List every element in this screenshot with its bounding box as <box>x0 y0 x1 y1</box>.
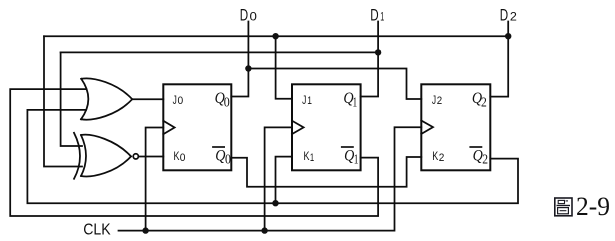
svg-text:J: J <box>302 93 306 107</box>
svg-text:0: 0 <box>180 152 186 164</box>
svg-text:1: 1 <box>307 95 312 107</box>
svg-text:2: 2 <box>437 95 442 107</box>
svg-text:J: J <box>432 93 436 107</box>
svg-text:K: K <box>304 149 310 163</box>
svg-text:1: 1 <box>353 96 358 111</box>
svg-text:2: 2 <box>481 96 487 111</box>
svg-text:J: J <box>173 93 177 107</box>
svg-text:2: 2 <box>510 10 517 24</box>
svg-text:0: 0 <box>224 96 230 111</box>
svg-text:2: 2 <box>439 152 445 164</box>
svg-text:1: 1 <box>310 152 314 164</box>
svg-text:K: K <box>174 149 180 163</box>
svg-text:CLK: CLK <box>83 222 111 239</box>
svg-text:D: D <box>240 6 248 24</box>
svg-text:2: 2 <box>482 153 488 168</box>
svg-text:0: 0 <box>178 95 184 107</box>
svg-text:1: 1 <box>354 153 359 168</box>
svg-text:1: 1 <box>380 10 384 24</box>
svg-text:0: 0 <box>250 9 258 23</box>
svg-text:K: K <box>432 149 438 163</box>
svg-text:D: D <box>500 7 508 25</box>
svg-text:2-9: 2-9 <box>576 192 610 221</box>
svg-text:D: D <box>370 7 378 25</box>
svg-text:0: 0 <box>225 153 231 168</box>
